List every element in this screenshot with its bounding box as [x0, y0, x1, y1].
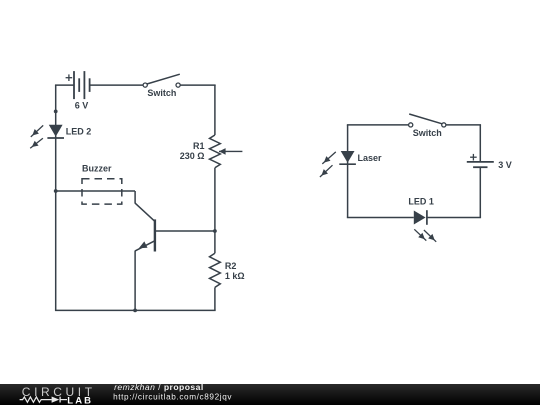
node on left rail above LED 2 [54, 110, 58, 114]
node base / right rail junction [213, 229, 217, 233]
transistor Q1 [135, 191, 215, 310]
node left rail / buzzer wire junction [54, 189, 58, 193]
wire top-left from left rail to battery [55, 84, 74, 86]
wire right rail middle (R1 to R2) [214, 168, 216, 253]
node emitter / bottom rail junction [133, 309, 137, 313]
wire left rail (right circuit) [347, 125, 349, 218]
svg-text:Switch: Switch [147, 88, 176, 98]
wire top rail (right circuit) right part [446, 124, 481, 126]
svg-text:230 Ω: 230 Ω [180, 151, 205, 161]
wire battery to switch [90, 84, 144, 86]
laser diode "Laser" [320, 151, 382, 177]
wire left rail vertical [55, 85, 57, 310]
svg-text:remzkhan / proposal: remzkhan / proposal [114, 382, 204, 392]
switch SW1 (right circuit) [409, 114, 446, 138]
svg-text:http://circuitlab.com/c892jqv: http://circuitlab.com/c892jqv [113, 393, 232, 402]
wire right rail upper [214, 85, 216, 135]
svg-text:LED 1: LED 1 [408, 197, 434, 207]
wire buzzer branch horizontal [56, 190, 135, 192]
switch SW2 (left circuit) [143, 74, 180, 98]
rheostat R1 230 Ω [180, 135, 243, 168]
svg-text:LED 2: LED 2 [66, 126, 92, 136]
wire right rail upper (right circuit) [479, 125, 481, 162]
buzzer (dashed box) [82, 164, 122, 205]
wire right rail lower [214, 287, 216, 310]
wire top rail (right circuit) left part [347, 124, 409, 126]
battery V2 3 V [467, 154, 512, 170]
resistor R2 1 kΩ [210, 253, 245, 287]
svg-text:Laser: Laser [358, 153, 383, 163]
wire bottom rail (right circuit) right part [427, 217, 481, 219]
LED D1 "LED 1" [408, 197, 436, 242]
svg-text:R2: R2 [225, 261, 237, 271]
wire bottom rail (right circuit) left part [347, 217, 414, 219]
svg-text:3 V: 3 V [498, 160, 512, 170]
svg-text:R1: R1 [193, 141, 205, 151]
wire switch to top-right corner [180, 84, 215, 86]
CircuitLab logo diode [52, 397, 60, 403]
svg-text:Buzzer: Buzzer [82, 164, 112, 174]
svg-text:LAB: LAB [67, 396, 93, 405]
battery V1 6 V [66, 71, 90, 111]
CircuitLab logo resistor squiggle [20, 397, 52, 402]
wire right rail lower (right circuit) [479, 167, 481, 217]
svg-text:Switch: Switch [413, 128, 442, 138]
wire bottom rail [55, 309, 216, 311]
LED D2 "LED 2" [30, 125, 91, 149]
svg-text:6 V: 6 V [75, 101, 89, 111]
svg-text:1 kΩ: 1 kΩ [225, 271, 245, 281]
